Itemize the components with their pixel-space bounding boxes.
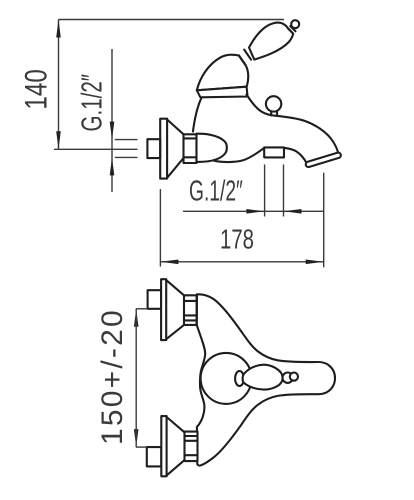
svg-text:G.1/2″: G.1/2″ <box>76 74 108 132</box>
svg-text:G.1/2″: G.1/2″ <box>189 176 243 208</box>
svg-text:178: 178 <box>220 224 254 255</box>
svg-text:150+/-20: 150+/-20 <box>96 308 129 445</box>
svg-text:140: 140 <box>19 69 54 109</box>
